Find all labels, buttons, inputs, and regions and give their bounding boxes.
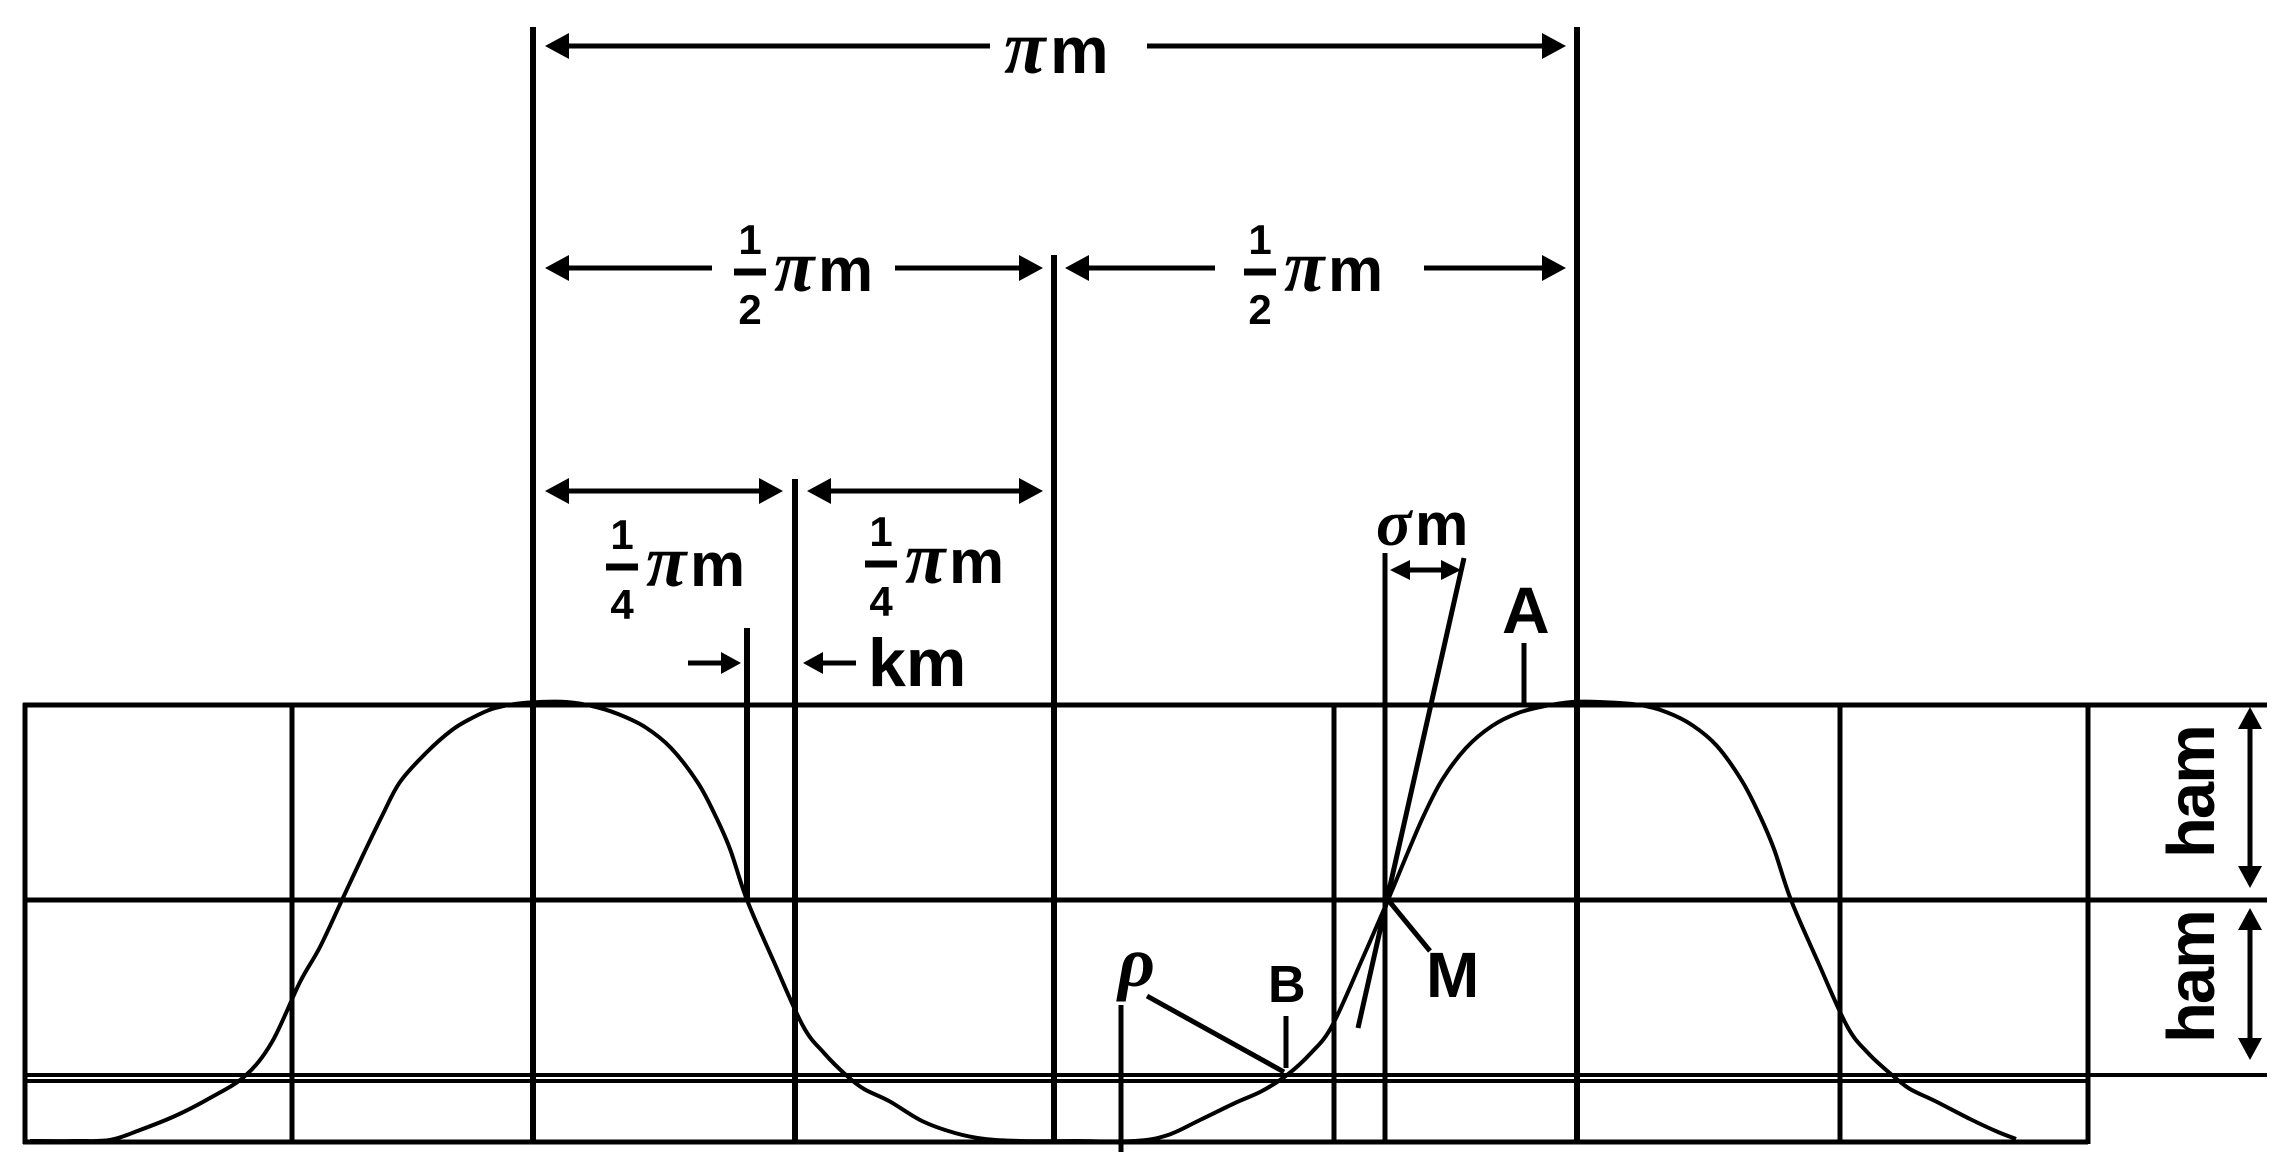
svg-text:A: A — [1502, 573, 1550, 647]
svg-text:m: m — [1050, 13, 1109, 87]
label quarter-pi-m left — [606, 511, 745, 628]
dimension pi-m left arrow — [545, 33, 990, 59]
svg-text:π: π — [774, 226, 816, 308]
dimension quarter-pi-m left, right arrow — [663, 478, 783, 504]
grid vertical at x=1334 — [1332, 703, 1337, 1142]
svg-text:m: m — [818, 236, 873, 305]
quarter-pitch divider line — [792, 479, 798, 1142]
rack datum line — [23, 1079, 2088, 1083]
dimension half-pi-m left, left arrow — [545, 255, 712, 281]
dimension quarter-pi-m left, left arrow — [545, 478, 663, 504]
label rho diagonal leader to B point — [1147, 996, 1284, 1072]
svg-text:π: π — [905, 518, 947, 600]
label quarter-pi-m right — [865, 508, 1004, 625]
km left arrow — [688, 652, 741, 674]
svg-text:ham: ham — [2154, 726, 2229, 858]
ham bottom double arrow — [2238, 908, 2262, 1060]
tooth tip line (top grid line) — [23, 703, 2267, 708]
svg-text:B: B — [1268, 956, 1306, 1014]
sigma-m reference line through M — [1383, 553, 1388, 1142]
svg-text:4: 4 — [869, 578, 893, 625]
svg-text:km: km — [868, 625, 966, 701]
svg-text:2: 2 — [1248, 286, 1271, 333]
left border — [23, 703, 28, 1144]
label M leader — [1389, 901, 1430, 951]
svg-text:4: 4 — [610, 581, 634, 628]
dimension quarter-pi-m right, right arrow — [925, 478, 1043, 504]
dimension half-pi-m right, right arrow — [1424, 255, 1566, 281]
km tick line — [744, 628, 750, 900]
svg-text:m: m — [1415, 491, 1468, 558]
root reference line — [23, 1073, 2267, 1077]
svg-text:2: 2 — [738, 286, 761, 333]
svg-text:M: M — [1426, 939, 1479, 1011]
grid vertical at x=1840 — [1838, 703, 1843, 1142]
svg-text:m: m — [690, 531, 745, 600]
dimension half-pi-m right, left arrow — [1065, 255, 1215, 281]
ham top double arrow — [2238, 707, 2262, 888]
svg-text:π: π — [1004, 6, 1048, 90]
flank line through M — [1358, 558, 1464, 1028]
label B tick — [1284, 1016, 1289, 1068]
half-pitch divider line — [1051, 255, 1057, 1142]
svg-text:m: m — [949, 528, 1004, 597]
label rho vertical leader — [1119, 1005, 1124, 1152]
extension line right (pi-m right boundary) — [1574, 27, 1580, 1142]
bottom line — [23, 1140, 2088, 1145]
svg-text:1: 1 — [738, 216, 761, 263]
svg-text:π: π — [646, 521, 688, 603]
svg-text:ρ: ρ — [1116, 922, 1155, 1002]
svg-text:ham: ham — [2154, 911, 2229, 1043]
svg-text:1: 1 — [869, 508, 892, 555]
label half-pi-m right — [1244, 216, 1383, 333]
label pi-m — [1004, 6, 1109, 90]
dimension pi-m right arrow — [1147, 33, 1566, 59]
grid vertical at x=292 — [290, 703, 295, 1142]
extension line left (pi-m left boundary) — [530, 27, 536, 1142]
label sigma-m — [1376, 487, 1468, 560]
svg-text:1: 1 — [1248, 216, 1271, 263]
pitch line (middle grid line) — [23, 898, 2267, 903]
tooth profile wave curve — [30, 702, 2016, 1142]
svg-text:m: m — [1328, 236, 1383, 305]
svg-text:σ: σ — [1376, 487, 1414, 560]
svg-text:π: π — [1284, 226, 1326, 308]
km right arrow — [803, 652, 856, 674]
dimension quarter-pi-m right, left arrow — [807, 478, 925, 504]
dimension half-pi-m left, right arrow — [895, 255, 1043, 281]
label half-pi-m left — [734, 216, 873, 333]
svg-text:1: 1 — [610, 511, 633, 558]
label A leader — [1522, 643, 1527, 703]
dimension sigma-m double arrow — [1390, 560, 1461, 580]
grid right border — [2086, 703, 2091, 1144]
